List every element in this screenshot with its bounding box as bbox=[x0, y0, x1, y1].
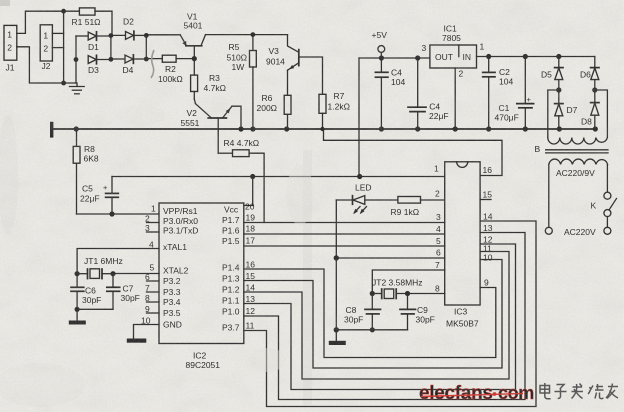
node rail D7 bbox=[557, 126, 562, 131]
IC2 89C2051 bbox=[159, 203, 244, 370]
node rail R8 bbox=[74, 126, 79, 131]
IC2 left pin labels bbox=[163, 206, 198, 329]
IC2 short stubs pins 6-9 bbox=[147, 280, 160, 282]
diode D7 bbox=[555, 104, 578, 129]
node R5 top bbox=[251, 32, 256, 37]
wire rail to IC3 pin16 link bbox=[324, 129, 503, 176]
wire Vcc rail bbox=[112, 176, 445, 178]
node D5 top bbox=[556, 54, 561, 59]
transformer primary bbox=[549, 159, 608, 164]
node top J bbox=[61, 9, 66, 14]
diode D8 bbox=[581, 103, 599, 129]
node C4b top bbox=[415, 55, 420, 60]
node V1 base / R2 R3 bbox=[192, 56, 197, 61]
crystal JT2 3.58MHz bbox=[372, 277, 445, 298]
wire bus IC2 p12 to IC3 p13 bbox=[244, 233, 525, 400]
wire +5V left drop bbox=[358, 58, 360, 177]
node rail C1 bbox=[523, 126, 528, 131]
wire IC1 out rail bbox=[477, 56, 595, 58]
connector J1 bbox=[4, 25, 17, 72]
diode D1 bbox=[88, 32, 111, 52]
transistor V1 bbox=[180, 11, 205, 58]
watermark elecfans.com bbox=[419, 383, 534, 404]
node JT2 left bbox=[370, 291, 375, 296]
wire bridge AC left bbox=[548, 90, 559, 138]
node D3 left bbox=[74, 57, 79, 62]
connector J2 bbox=[40, 25, 52, 71]
node rail R6 bbox=[284, 126, 289, 131]
node rail R5 bbox=[250, 126, 255, 131]
watermark chinese 电子发烧友 bbox=[540, 383, 618, 399]
node JT1 ground bbox=[75, 307, 80, 312]
wire IC3 pin7 over crystal bbox=[372, 270, 444, 294]
wire bus IC2 p15 to IC3 p10 bbox=[244, 260, 502, 369]
ground (IC2) bbox=[127, 339, 147, 343]
capacitor C5 bbox=[80, 177, 118, 215]
resistor R1 bbox=[64, 8, 112, 35]
switch K bbox=[591, 192, 617, 227]
wire Vcc drop to IC2 pin20 bbox=[244, 177, 253, 206]
resistor R6 bbox=[257, 93, 292, 129]
diode D2 bbox=[111, 16, 146, 39]
node pin7 row ground bbox=[334, 255, 339, 260]
wire J1.2 to ground row bbox=[17, 47, 64, 83]
node JT1 right bbox=[110, 271, 115, 276]
ground (LED / C8C9) bbox=[329, 341, 346, 345]
wire bridge AC right bbox=[595, 90, 608, 138]
transformer B secondary bbox=[548, 138, 608, 145]
wire bus P1.6 row bbox=[244, 233, 445, 235]
node bottom J bbox=[61, 81, 66, 86]
wire D2 node to V1 emitter bbox=[146, 34, 180, 36]
wire D1 row left bbox=[76, 35, 88, 37]
node 5V circle bbox=[379, 55, 384, 60]
node D1 out bbox=[109, 33, 114, 38]
capacitor C4b 22uF bbox=[408, 58, 449, 129]
capacitor C8 bbox=[344, 294, 381, 330]
ground (input) bbox=[70, 87, 85, 94]
resistor R5 bbox=[227, 35, 257, 129]
capacitor C9 bbox=[400, 294, 435, 330]
wire IC2 pin10 GND bbox=[134, 325, 160, 339]
node C5 bottom bbox=[109, 211, 114, 216]
capacitor C7 bbox=[107, 274, 140, 310]
IC2 left pin numbers bbox=[141, 204, 156, 326]
IC2 right pin numbers bbox=[245, 201, 255, 330]
node rail C4a bbox=[379, 126, 384, 131]
transistor V2 bbox=[181, 99, 242, 153]
node rail C2 bbox=[486, 126, 491, 131]
node C1 top bbox=[523, 54, 528, 59]
wire LED ground vertical bbox=[335, 200, 337, 341]
IC1 7805 bbox=[422, 24, 485, 79]
node D5-D7 bbox=[556, 87, 561, 92]
wire C6 C7 bottoms bbox=[77, 308, 113, 310]
wire +5V rail bbox=[359, 57, 430, 59]
IC3 right pin numbers bbox=[483, 165, 493, 287]
capacitor C6 bbox=[71, 274, 101, 310]
diode D3 bbox=[88, 55, 111, 75]
wire bus P1.5 row bbox=[244, 245, 445, 247]
ground (JT1) bbox=[69, 309, 86, 324]
node rail C4b bbox=[415, 126, 420, 131]
transformer core bbox=[546, 150, 608, 153]
node rail IC1 pin2 bbox=[453, 126, 458, 131]
capacitor C2 104 bbox=[483, 57, 514, 130]
node rail R7 bbox=[320, 127, 324, 131]
node JT2 right bbox=[405, 291, 410, 296]
wire V1 collector to top rail bbox=[206, 34, 288, 36]
node JT1 left bbox=[75, 271, 80, 276]
diode D6 bbox=[580, 57, 599, 103]
node D4 out bbox=[144, 57, 149, 62]
node Vcc 5V drop bbox=[357, 174, 362, 179]
scan paper noise bbox=[0, 0, 1, 1]
wire bus P1.7 row bbox=[244, 222, 445, 224]
scan crease squiggle bbox=[151, 50, 154, 78]
node Vcc IC2 bbox=[250, 174, 255, 179]
terminal +5V bbox=[372, 30, 388, 58]
wire primary left lead bbox=[548, 164, 550, 227]
wire J2.2 to vertical bbox=[52, 47, 63, 49]
IC2 right pin labels bbox=[222, 204, 240, 332]
node D2 out bbox=[144, 33, 149, 38]
wire J1.1 to top node bbox=[17, 11, 64, 33]
wire C8 C9 bottoms bbox=[336, 329, 407, 331]
wire bus IC2 p11 to IC3 p14 bbox=[244, 221, 536, 407]
wire main rail bbox=[52, 128, 596, 130]
node rail D8 bbox=[593, 126, 598, 131]
transistor V3 bbox=[266, 35, 323, 96]
LED bbox=[336, 182, 398, 214]
node rail V2 bbox=[238, 126, 243, 131]
wire vertical J-node bbox=[63, 11, 65, 83]
wire D2-D4 column bbox=[145, 35, 147, 59]
node C8 row ground bbox=[334, 327, 339, 332]
wire left column D1-D3 bbox=[75, 36, 77, 83]
wire IC3 pin15 stub bbox=[480, 199, 491, 201]
resistor R8 bbox=[73, 129, 99, 214]
terminal AC right bbox=[604, 227, 611, 234]
wire primary right lead bbox=[606, 164, 608, 192]
wire bus IC2 p14 to IC3 p11 bbox=[244, 252, 509, 380]
diode D5 bbox=[541, 57, 563, 104]
wire IC1 pin2 drop bbox=[454, 68, 456, 129]
crystal JT1 6MHz bbox=[77, 256, 123, 279]
wire R8 to IC2 pin1 bbox=[77, 213, 160, 215]
resistor R4 bbox=[218, 138, 264, 223]
node C8 bottom bbox=[370, 327, 375, 332]
wire bus IC2 p16 to IC3 p9 bbox=[244, 269, 496, 358]
resistor R3 bbox=[191, 59, 226, 99]
node D6-D8 bbox=[592, 87, 597, 92]
capacitor C4a 104 bbox=[375, 58, 405, 129]
node C2 top bbox=[486, 54, 491, 59]
resistor R2 bbox=[146, 55, 194, 84]
IC2 short stubs pins 2,3 bbox=[147, 222, 160, 224]
capacitor C1 470uF bbox=[495, 57, 534, 130]
rail left terminal bar bbox=[50, 122, 53, 138]
resistor R9 bbox=[391, 197, 445, 218]
IC3 left pin numbers bbox=[434, 163, 441, 293]
IC3 MK50B7 bbox=[445, 162, 480, 329]
wire XTAL1 pin4 bbox=[77, 249, 159, 274]
node D3 out bbox=[109, 57, 114, 62]
wire IC3 pin6 row bbox=[336, 257, 444, 259]
terminal AC left bbox=[545, 227, 552, 234]
wire XTAL2 pin5 bbox=[113, 273, 159, 275]
wire bus IC2 p13 to IC3 p12 bbox=[244, 244, 516, 390]
resistor R7 bbox=[319, 91, 350, 129]
wire ground row to ground bbox=[64, 83, 77, 86]
wire mid column bbox=[110, 36, 112, 60]
diode D4 bbox=[111, 55, 146, 75]
wire J2.1 to vertical bbox=[52, 32, 63, 34]
